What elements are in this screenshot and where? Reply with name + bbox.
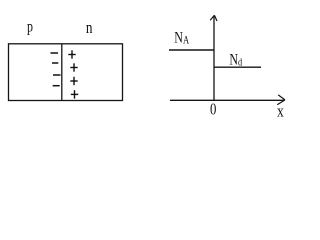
svg-text:0: 0 — [210, 101, 216, 119]
minus charge 4 — [53, 85, 60, 87]
x axis arrowhead — [277, 95, 285, 105]
svg-text:n: n — [86, 19, 93, 38]
minus charge 1 — [51, 52, 59, 54]
plus charge 2 — [70, 63, 77, 71]
minus charge 2 — [52, 62, 58, 64]
svg-text:x: x — [277, 102, 284, 121]
x axis (horizontal) — [170, 99, 285, 101]
minus charge 3 — [53, 74, 61, 76]
svg-text:NA: NA — [174, 29, 189, 47]
vertical axis arrowhead — [210, 15, 217, 21]
junction divider line — [61, 44, 63, 101]
svg-text:Nd: Nd — [229, 51, 242, 69]
plus charge 4 — [71, 90, 78, 98]
plus charge 1 — [68, 50, 75, 58]
p-n junction box — [9, 44, 123, 101]
NA acceptor level line — [169, 49, 214, 51]
Nd donor level line — [214, 66, 261, 68]
concentration axis (vertical) — [213, 16, 215, 101]
svg-text:p: p — [27, 18, 33, 36]
plus charge 3 — [70, 77, 77, 85]
